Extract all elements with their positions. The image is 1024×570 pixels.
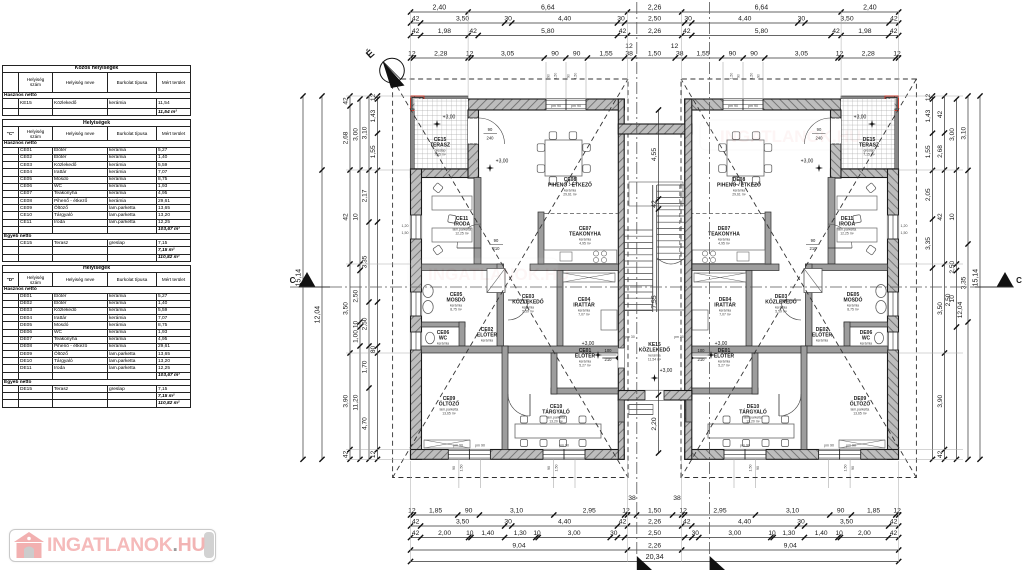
svg-text:6,64: 6,64 — [541, 5, 555, 12]
svg-text:2,17: 2,17 — [362, 189, 369, 202]
svg-text:90: 90 — [567, 74, 571, 78]
svg-text:1,50: 1,50 — [555, 465, 559, 472]
svg-text:pm 90: pm 90 — [571, 104, 581, 108]
svg-text:ELŐTÉR: ELŐTÉR — [812, 331, 833, 339]
svg-text:42: 42 — [619, 28, 627, 35]
svg-text:1,30: 1,30 — [514, 530, 527, 537]
svg-text:1,50: 1,50 — [749, 465, 753, 472]
svg-text:4,70: 4,70 — [362, 417, 369, 430]
svg-text:2,68: 2,68 — [343, 131, 350, 144]
svg-text:3,50: 3,50 — [343, 302, 350, 315]
svg-text:+3,00: +3,00 — [801, 159, 814, 165]
svg-text:1,20: 1,20 — [402, 224, 409, 228]
section marker bottom left — [637, 556, 652, 570]
left unit: terrace door arc — [479, 118, 505, 144]
right unit: window ext lines bottom — [734, 459, 850, 488]
right unit: door label 90-210 — [806, 244, 820, 246]
left unit: level star terrace — [433, 120, 441, 128]
right unit: windows bottom wall meeting — [724, 450, 766, 460]
svg-text:PIHENŐ - ÉTKEZŐ: PIHENŐ - ÉTKEZŐ — [717, 181, 761, 189]
section marker C right — [997, 272, 1014, 287]
svg-text:13,65 m²: 13,65 m² — [853, 412, 867, 416]
right unit: wc top wall — [844, 322, 888, 327]
svg-text:1,85: 1,85 — [867, 508, 880, 515]
svg-text:ELŐTÉR: ELŐTÉR — [575, 352, 596, 360]
svg-text:12: 12 — [893, 51, 901, 58]
top extension lines — [410, 10, 412, 98]
left unit: kitchenette north line — [544, 213, 618, 215]
ghost watermark 2 — [700, 120, 861, 150]
left unit: washroom top wall — [422, 264, 504, 271]
left unit: terrace door opening — [468, 118, 479, 144]
right unit: roof diagonal NW-SE — [681, 79, 916, 478]
bottom total dimension — [411, 561, 899, 563]
svg-text:7,15 m²: 7,15 m² — [863, 153, 875, 157]
right unit: hall door arc — [781, 300, 801, 320]
svg-text:3,50: 3,50 — [456, 519, 469, 526]
top dimension row 4 — [411, 57, 899, 59]
svg-text:10: 10 — [353, 321, 360, 329]
svg-text:1,40: 1,40 — [815, 530, 828, 537]
stair right flight — [657, 184, 685, 186]
right unit: wc right wall — [844, 322, 850, 346]
svg-text:4,40: 4,40 — [738, 519, 751, 526]
left unit: office door arc — [457, 224, 481, 248]
right unit: office chairs — [853, 183, 877, 256]
left dim col4 — [359, 99, 361, 459]
svg-text:12: 12 — [408, 508, 416, 515]
right unit: shelf unit — [694, 273, 746, 282]
right unit: windows bottom wall dressing — [819, 450, 861, 460]
left unit: exterior left wall — [411, 169, 422, 459]
right unit: shower cabin — [804, 269, 822, 293]
svg-text:PIHENŐ - ÉTKEZŐ: PIHENŐ - ÉTKEZŐ — [548, 181, 592, 189]
porch side walls — [618, 400, 624, 422]
common rooms table header — [3, 66, 191, 408]
right unit: office door arc — [828, 224, 852, 248]
svg-text:90: 90 — [452, 466, 456, 470]
svg-text:pm 90: pm 90 — [728, 104, 738, 108]
svg-text:3,10: 3,10 — [362, 126, 369, 139]
svg-text:2,26: 2,26 — [648, 543, 661, 550]
svg-text:20,34: 20,34 — [646, 552, 664, 561]
svg-text:30: 30 — [504, 519, 512, 526]
svg-text:5,27 m²: 5,27 m² — [579, 364, 591, 368]
bottom dimension row 3 — [411, 537, 899, 539]
svg-text:42: 42 — [890, 28, 898, 35]
svg-text:90: 90 — [551, 51, 559, 58]
svg-text:pm 90: pm 90 — [740, 444, 750, 448]
svg-text:6,64: 6,64 — [755, 5, 769, 12]
svg-text:2,00: 2,00 — [858, 530, 871, 537]
svg-text:90: 90 — [494, 238, 499, 243]
svg-text:15,14: 15,14 — [973, 269, 980, 287]
svg-text:KÖZLEKEDŐ: KÖZLEKEDŐ — [765, 299, 797, 306]
right unit: terrace floor tile grid — [841, 99, 895, 169]
svg-text:3,90: 3,90 — [937, 394, 944, 407]
svg-text:4,95 m²: 4,95 m² — [579, 242, 591, 246]
svg-text:12: 12 — [679, 508, 687, 515]
svg-text:2,50: 2,50 — [362, 317, 369, 330]
svg-text:3,00: 3,00 — [728, 530, 741, 537]
svg-text:90: 90 — [851, 466, 855, 470]
left unit: window left wall wc — [411, 332, 422, 350]
svg-text:1,50: 1,50 — [574, 73, 578, 80]
left unit: entry hall south wall — [551, 388, 618, 394]
section marker bottom right — [710, 556, 725, 570]
center dimension line — [658, 110, 660, 453]
svg-text:12: 12 — [622, 508, 630, 515]
svg-text:42: 42 — [683, 519, 691, 526]
svg-text:IRATTÁR: IRATTÁR — [714, 302, 736, 309]
right horizontal extension lines — [899, 95, 963, 97]
left unit: window ext lines top — [545, 62, 547, 99]
svg-text:42: 42 — [343, 450, 350, 458]
svg-text:+3,00: +3,00 — [660, 368, 673, 374]
left unit: window left wall office — [411, 215, 422, 239]
svg-text:38: 38 — [673, 495, 681, 502]
svg-text:1,55: 1,55 — [599, 51, 612, 58]
svg-text:+3,00: +3,00 — [715, 341, 728, 347]
svg-text:10: 10 — [768, 530, 776, 537]
right unit: window left wall office — [888, 215, 899, 239]
left unit: archive desk — [601, 310, 617, 330]
svg-text:9,04: 9,04 — [512, 543, 525, 550]
left unit: shelf unit — [563, 273, 615, 282]
svg-text:90: 90 — [756, 466, 760, 470]
left unit: exterior top wall — [468, 99, 624, 110]
svg-text:KÖZLEKEDŐ: KÖZLEKEDŐ — [639, 347, 671, 354]
svg-text:42: 42 — [343, 213, 350, 221]
section line C horizontal — [290, 286, 1014, 288]
svg-text:42: 42 — [890, 519, 898, 526]
svg-text:12: 12 — [925, 94, 932, 102]
section line B right — [709, 2, 711, 556]
right unit: wc toilet — [875, 332, 884, 344]
svg-text:30: 30 — [684, 16, 692, 23]
left dim col6 — [377, 96, 379, 459]
left dim 12,04 — [321, 96, 323, 459]
svg-text:90: 90 — [750, 51, 758, 58]
svg-text:IRATTÁR: IRATTÁR — [573, 302, 595, 309]
left dim col3 — [349, 96, 351, 459]
svg-text:5,27 m²: 5,27 m² — [718, 364, 730, 368]
svg-text:2,50: 2,50 — [353, 289, 360, 302]
svg-text:pm 90: pm 90 — [453, 444, 463, 448]
svg-text:3,50: 3,50 — [840, 519, 853, 526]
left unit: wc top wall — [422, 322, 466, 327]
svg-text:1,50: 1,50 — [844, 465, 848, 472]
svg-text:90: 90 — [547, 74, 551, 78]
right unit: washbasins — [876, 285, 886, 314]
north symbol circle — [380, 58, 405, 83]
svg-text:1,30: 1,30 — [782, 530, 795, 537]
svg-text:42: 42 — [412, 28, 420, 35]
svg-text:3,05: 3,05 — [501, 51, 514, 58]
stair left flight — [624, 229, 652, 231]
right unit: dining chairs — [719, 132, 772, 185]
svg-text:1,50: 1,50 — [402, 231, 409, 235]
svg-text:12: 12 — [466, 51, 474, 58]
right unit: terrace bottom wall — [831, 169, 899, 178]
left unit: meeting chairs — [521, 416, 528, 423]
svg-text:1,50: 1,50 — [648, 508, 661, 515]
left unit: living room south wall — [530, 264, 618, 271]
svg-text:kerámia: kerámia — [860, 342, 872, 346]
left unit: wc right wall — [459, 322, 465, 346]
svg-text:10: 10 — [949, 213, 956, 221]
svg-text:30: 30 — [610, 530, 618, 537]
svg-text:8,75 m²: 8,75 m² — [847, 308, 859, 312]
left unit: washroom right wall — [497, 264, 504, 346]
svg-text:2,40: 2,40 — [432, 5, 446, 12]
right unit: terrace parapet left wall — [895, 96, 899, 169]
svg-text:3,35: 3,35 — [925, 237, 932, 250]
svg-text:pm 30: pm 30 — [674, 335, 684, 339]
left unit: terrace parapet left wall — [411, 96, 415, 169]
svg-text:42: 42 — [619, 519, 627, 526]
svg-text:É: É — [363, 47, 377, 61]
svg-text:4,40: 4,40 — [738, 16, 751, 23]
svg-text:2,50: 2,50 — [949, 260, 956, 273]
svg-text:42: 42 — [890, 16, 898, 23]
svg-text:90: 90 — [737, 74, 741, 78]
svg-text:2,28: 2,28 — [862, 51, 875, 58]
svg-text:12,04: 12,04 — [315, 306, 322, 324]
svg-text:2,50: 2,50 — [648, 530, 661, 537]
svg-text:30: 30 — [692, 530, 700, 537]
svg-text:42: 42 — [412, 519, 420, 526]
svg-text:4,95 m²: 4,95 m² — [718, 242, 730, 246]
right unit: office right wall — [828, 178, 835, 265]
right unit: windows top wall living — [723, 99, 763, 110]
svg-text:ÖLTÖZŐ: ÖLTÖZŐ — [439, 401, 460, 408]
svg-text:90: 90 — [573, 51, 581, 58]
svg-text:pm 90: pm 90 — [551, 104, 561, 108]
svg-text:MOSDÓ: MOSDÓ — [844, 296, 863, 304]
svg-text:1,98: 1,98 — [858, 28, 871, 35]
right unit: terrace door arc — [805, 118, 831, 144]
left unit: windows top wall living — [546, 99, 586, 110]
left unit: roof diagonal SW-NE — [393, 79, 628, 478]
svg-text:kerámia: kerámia — [816, 339, 828, 343]
svg-text:12: 12 — [625, 43, 633, 50]
svg-text:80: 80 — [370, 346, 377, 354]
left unit: exterior bottom wall — [411, 450, 625, 460]
svg-text:3,10: 3,10 — [510, 508, 523, 515]
svg-text:2,95: 2,95 — [583, 508, 596, 515]
svg-text:4,40: 4,40 — [558, 16, 571, 23]
svg-text:90: 90 — [811, 238, 816, 243]
svg-text:3,00: 3,00 — [353, 128, 360, 141]
svg-text:1,55: 1,55 — [370, 145, 377, 158]
left unit: wc toilet — [426, 332, 435, 344]
svg-text:1,43: 1,43 — [925, 109, 932, 122]
right unit: meeting table — [708, 424, 794, 438]
svg-text:+3,00: +3,00 — [582, 341, 595, 347]
svg-text:2,68: 2,68 — [937, 145, 944, 158]
top dimension row 1 — [411, 11, 899, 13]
left unit: terrace floor tile grid — [415, 99, 469, 169]
svg-text:12,04: 12,04 — [957, 301, 964, 318]
left unit: entry door gap — [618, 348, 624, 368]
left unit: wardrobe box — [424, 440, 470, 448]
svg-text:2,50: 2,50 — [648, 16, 661, 23]
left unit: office chairs — [433, 183, 444, 194]
svg-text:5,80: 5,80 — [541, 28, 554, 35]
right unit: level star entry — [707, 351, 715, 359]
svg-text:kerámia: kerámia — [437, 342, 449, 346]
right unit: window left wall wc — [888, 332, 899, 350]
stair top landing — [629, 182, 683, 206]
svg-text:12,25 m²: 12,25 m² — [840, 232, 854, 236]
right unit: washroom top wall — [806, 264, 888, 271]
left unit: office desks — [432, 196, 472, 210]
left unit: kitchenette west wall — [538, 212, 544, 264]
svg-text:1,50: 1,50 — [460, 465, 464, 472]
section line B left — [636, 2, 638, 556]
svg-text:11,20: 11,20 — [353, 394, 360, 410]
bottom dimension row 2 — [411, 525, 899, 527]
svg-text:7,07 m²: 7,07 m² — [578, 313, 590, 317]
svg-text:1,55: 1,55 — [696, 51, 709, 58]
svg-text:30: 30 — [617, 16, 625, 23]
right unit: door label 90-240 — [812, 133, 826, 135]
north arrow — [383, 61, 405, 88]
svg-text:pm 90: pm 90 — [559, 444, 569, 448]
svg-text:pm 30: pm 30 — [625, 335, 635, 339]
svg-text:13,20 m²: 13,20 m² — [746, 420, 760, 424]
svg-text:10: 10 — [466, 530, 474, 537]
right unit: dining table — [727, 140, 764, 176]
svg-text:13,65 m²: 13,65 m² — [442, 412, 456, 416]
right unit: terrace right wall — [831, 110, 842, 178]
left unit: meeting room door arc — [508, 394, 530, 416]
left dim total 15,14 — [302, 96, 304, 459]
svg-text:ELŐTÉR: ELŐTÉR — [477, 331, 498, 339]
svg-text:240: 240 — [487, 136, 495, 141]
svg-text:42: 42 — [412, 530, 420, 537]
svg-text:2,50: 2,50 — [945, 293, 952, 306]
left unit: unit wall at corridor — [618, 99, 624, 400]
left unit: terrace bottom wall — [411, 169, 479, 178]
svg-text:30: 30 — [797, 519, 805, 526]
svg-text:42: 42 — [343, 97, 350, 105]
unit D table — [3, 266, 191, 273]
right dim col1 — [932, 96, 934, 459]
svg-text:90: 90 — [465, 508, 473, 515]
svg-text:1,50: 1,50 — [730, 73, 734, 80]
svg-text:3,50: 3,50 — [840, 16, 853, 23]
svg-text:90: 90 — [837, 508, 845, 515]
unit C table — [3, 120, 191, 127]
right unit: wardrobe box — [839, 440, 885, 448]
right unit: exterior bottom wall — [685, 450, 899, 460]
top dimension row 2 — [411, 22, 899, 24]
ghost watermark in plan — [408, 258, 569, 288]
svg-text:3,00: 3,00 — [568, 530, 581, 537]
corridor entrance door gap — [645, 391, 664, 401]
svg-text:TÁRGYALÓ: TÁRGYALÓ — [542, 408, 570, 416]
right unit: terrace parapet top wall — [841, 96, 899, 99]
left unit: hall door arc — [508, 300, 528, 320]
svg-text:1,50: 1,50 — [901, 231, 908, 235]
corridor right wall — [685, 99, 692, 459]
left unit: unit wall lower at corridor — [618, 400, 624, 459]
left unit: window ext lines bottom — [458, 459, 460, 488]
left unit: eaves overhang outline — [393, 79, 628, 478]
right unit: terrace door opening — [831, 118, 842, 144]
svg-text:42: 42 — [890, 530, 898, 537]
right unit: unit wall lower at corridor — [685, 400, 691, 459]
svg-text:1,55: 1,55 — [925, 145, 932, 158]
svg-text:13,20 m²: 13,20 m² — [549, 420, 563, 424]
svg-text:7,55: 7,55 — [651, 295, 658, 308]
left unit: office right wall — [474, 178, 481, 265]
right unit: meeting room door arc — [779, 394, 801, 416]
right unit: living room south wall — [691, 264, 779, 271]
svg-text:8,75 m²: 8,75 m² — [450, 308, 462, 312]
left unit: washbasins — [423, 285, 433, 298]
left unit: corner column — [412, 98, 423, 110]
svg-text:2,26: 2,26 — [648, 5, 662, 12]
left horizontal extension lines — [346, 95, 411, 97]
svg-text:42: 42 — [937, 111, 944, 119]
svg-text:9,04: 9,04 — [784, 543, 797, 550]
svg-text:1,50: 1,50 — [750, 73, 754, 80]
right unit: mid wall above dressing — [801, 346, 888, 353]
left unit: terrace right wall — [468, 110, 479, 178]
svg-text:7,07 m²: 7,07 m² — [719, 313, 731, 317]
svg-text:29,61 m²: 29,61 m² — [732, 193, 746, 197]
right unit: level star living — [815, 164, 823, 172]
svg-text:+3,00: +3,00 — [496, 159, 509, 165]
svg-text:10: 10 — [836, 530, 844, 537]
svg-text:29,61 m²: 29,61 m² — [563, 193, 577, 197]
svg-text:kerámia: kerámia — [481, 339, 493, 343]
svg-text:pm 90: pm 90 — [475, 444, 485, 448]
right unit: archive desk — [692, 310, 708, 330]
right unit: kitchenette west wall — [765, 212, 771, 264]
svg-text:12: 12 — [671, 43, 679, 50]
right unit: door label 100-210 — [693, 354, 710, 356]
section marker C left — [299, 272, 316, 287]
svg-text:MOSDÓ: MOSDÓ — [447, 296, 466, 304]
right unit: entry door triangle — [685, 350, 706, 366]
left unit: dining table — [545, 140, 582, 176]
svg-text:1,00: 1,00 — [353, 330, 360, 343]
right unit: level star terrace — [868, 120, 876, 128]
stair landing line — [624, 309, 685, 311]
svg-text:4,40: 4,40 — [558, 519, 571, 526]
right unit: eaves overhang outline — [681, 79, 916, 478]
svg-text:12: 12 — [836, 51, 844, 58]
bottom dimension row 4 — [411, 549, 899, 551]
left dim col5 — [368, 96, 370, 459]
right unit: window left wall washroom — [888, 292, 899, 316]
svg-text:2,20: 2,20 — [651, 417, 658, 430]
watermark text — [47, 534, 205, 557]
right unit: office desks — [837, 196, 877, 242]
svg-text:90: 90 — [729, 51, 737, 58]
svg-text:2,05: 2,05 — [925, 188, 932, 201]
right dim total 15,14 — [979, 96, 981, 459]
svg-text:3,35: 3,35 — [362, 255, 369, 268]
svg-text:3,35: 3,35 — [961, 276, 968, 289]
corridor level star — [651, 374, 659, 382]
svg-text:pm 90: pm 90 — [846, 444, 856, 448]
left unit: kitchen counter — [544, 250, 617, 264]
